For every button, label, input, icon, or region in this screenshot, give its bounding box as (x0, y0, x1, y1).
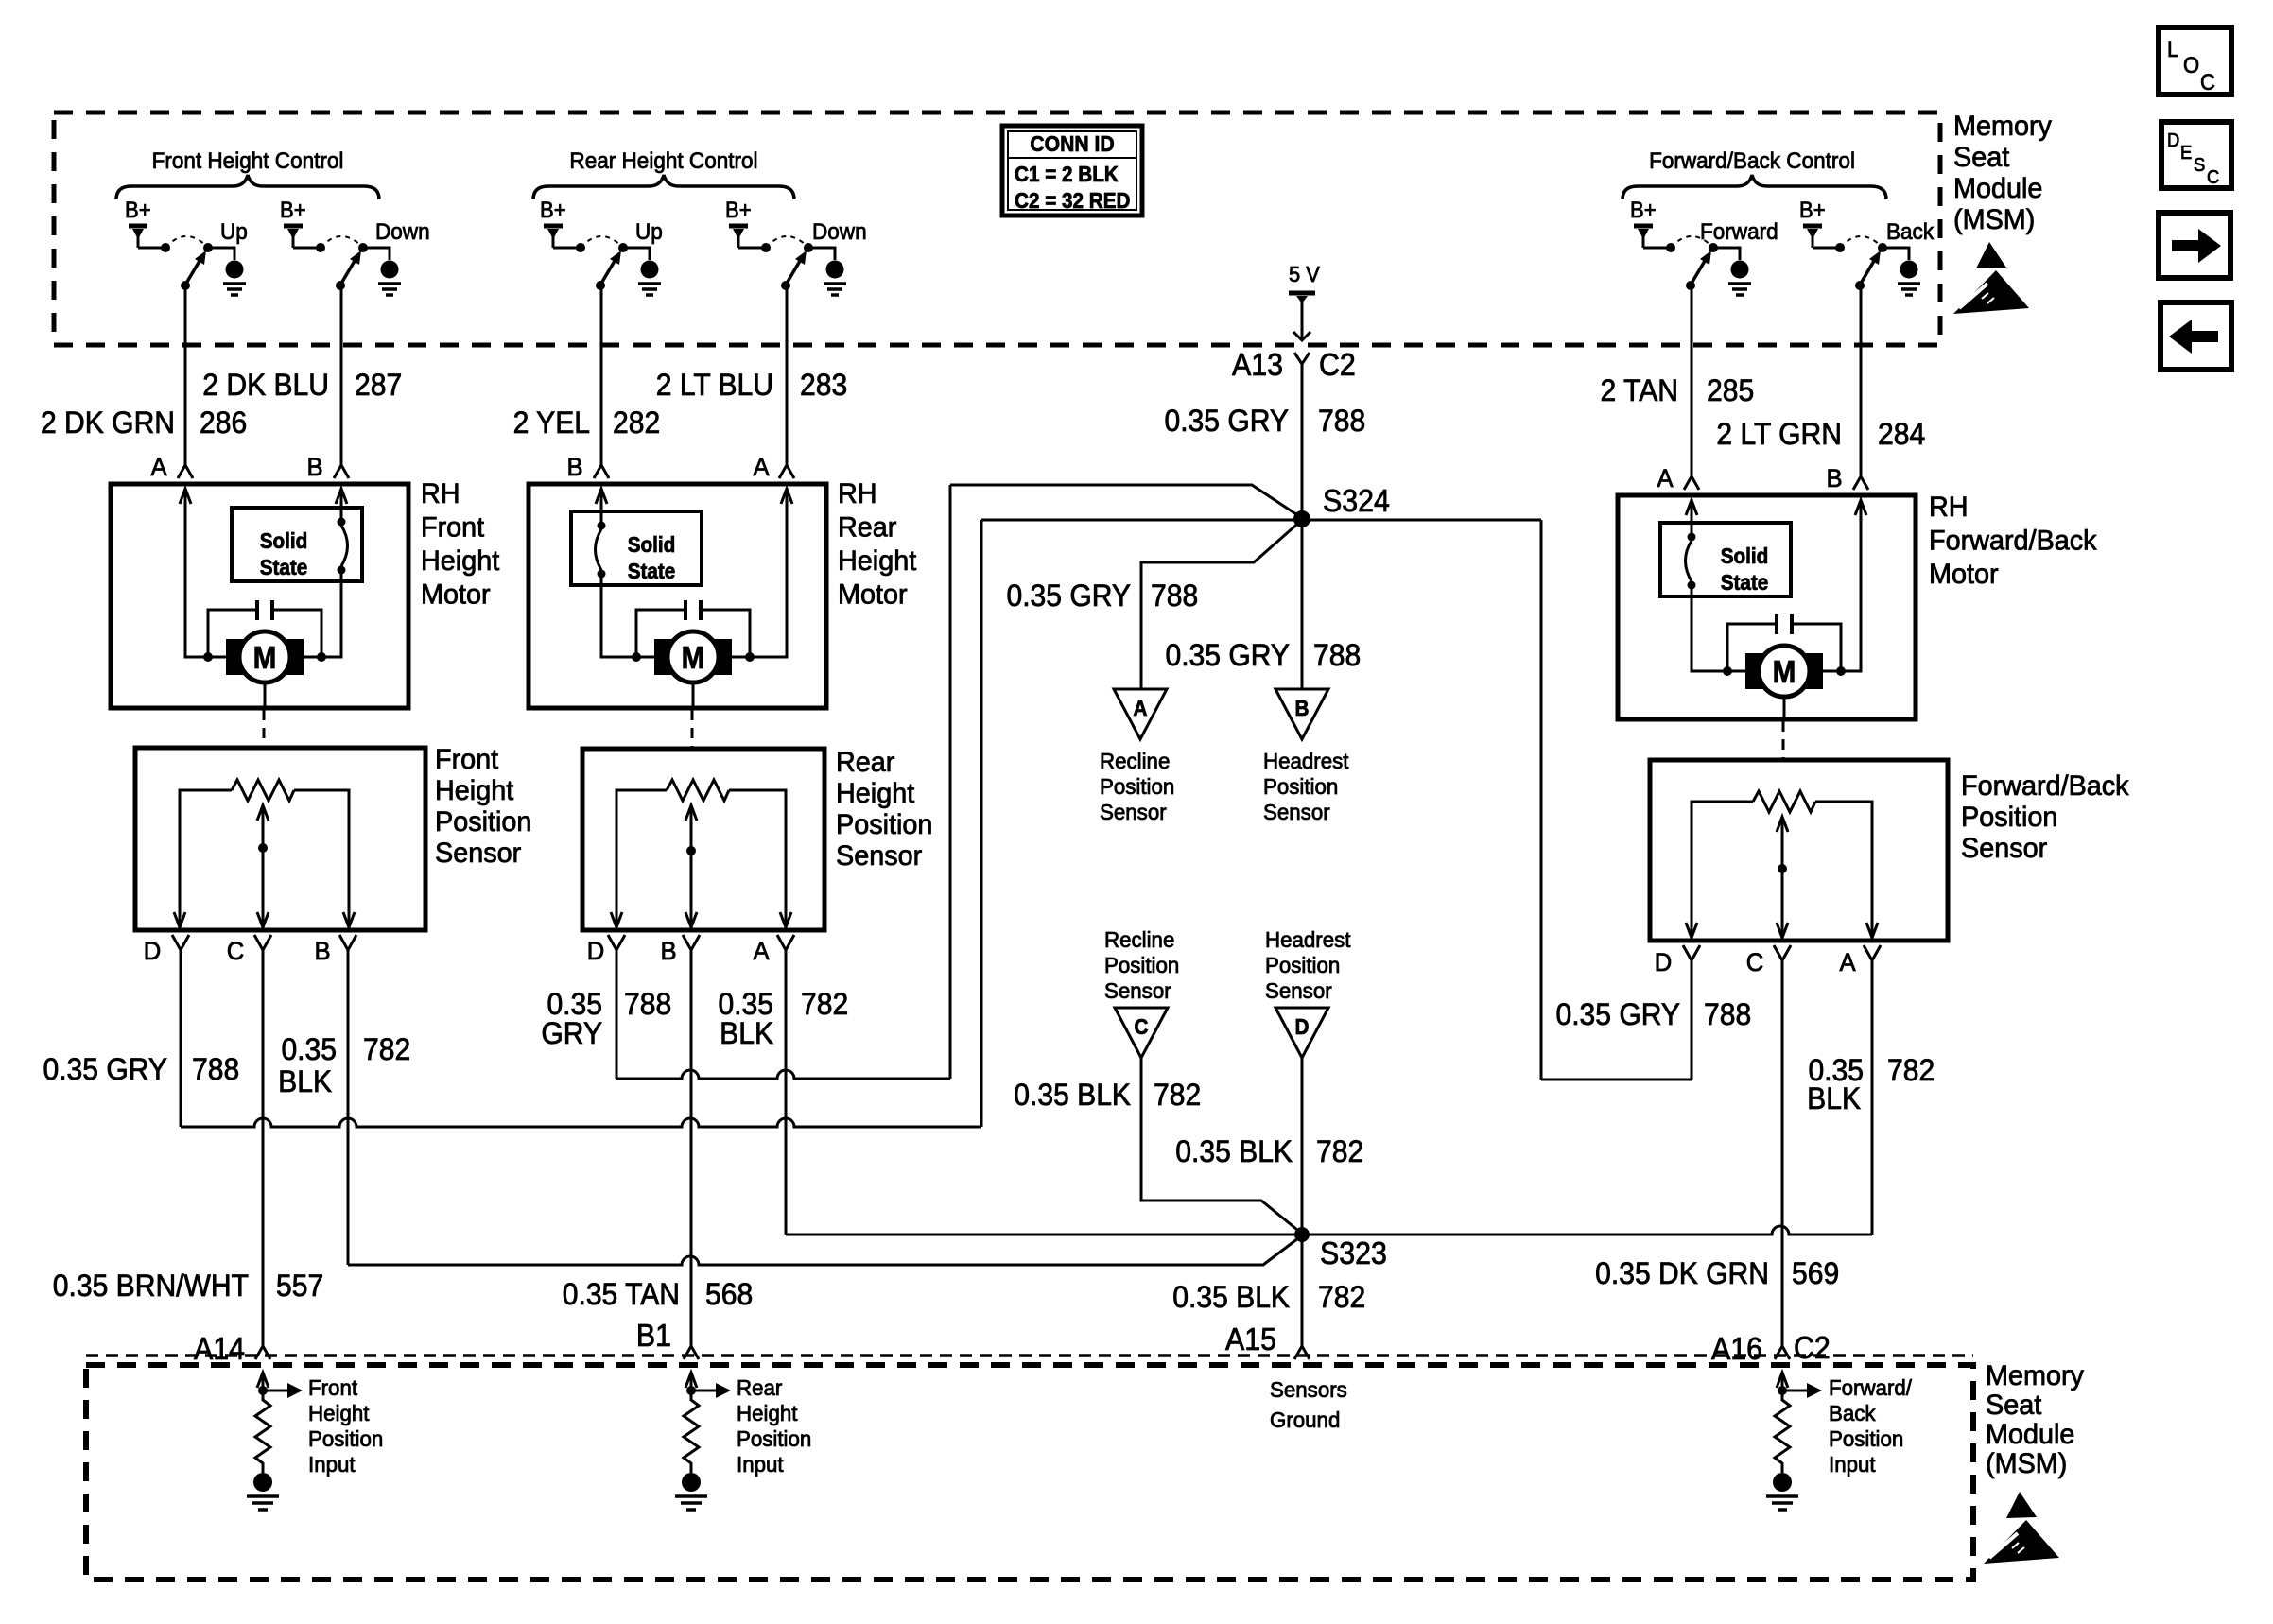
svg-text:B+: B+ (1630, 197, 1657, 222)
switch Rear Height Down (738, 236, 846, 295)
svg-text:C: C (2200, 69, 2215, 95)
svg-text:2 TAN: 2 TAN (1601, 373, 1678, 407)
svg-text:B1: B1 (636, 1318, 671, 1353)
wire S323 to A15 (1301, 1235, 1304, 1346)
svg-text:Solid: Solid (260, 528, 308, 553)
connector chevron (B1) (684, 1346, 699, 1359)
svg-text:Solid: Solid (1721, 544, 1769, 568)
svg-text:B: B (314, 936, 330, 965)
svg-text:Headrest: Headrest (1263, 749, 1349, 773)
forward arrow icon (2159, 213, 2230, 278)
wire label 2 YEL 282 (513, 406, 661, 440)
svg-text:Height: Height (838, 544, 916, 577)
wire label 0.35 BLK 782 (front B) (278, 1032, 410, 1098)
Forward/Back Position Sensor box (1650, 760, 1948, 941)
svg-text:782: 782 (801, 987, 848, 1021)
connector chevron (f/b sensor D) (1683, 945, 1700, 960)
f/b motor pin A arrow (1686, 500, 1697, 515)
connector chevron (Front Height Up switch to motor A) (178, 465, 193, 478)
svg-text:A: A (1657, 463, 1674, 492)
svg-text:0.35 BLK: 0.35 BLK (1175, 1134, 1293, 1168)
wire horizontal y1192 (front D to S324 riser) (181, 1118, 981, 1127)
svg-text:B+: B+ (1799, 197, 1826, 222)
svg-text:A14: A14 (194, 1331, 245, 1366)
svg-text:RH: RH (838, 477, 877, 510)
potentiometer (rear height sensor) (667, 780, 729, 801)
recline position sensor label (upper) (1100, 749, 1174, 824)
svg-text:(MSM): (MSM) (1953, 203, 2035, 235)
svg-text:Input: Input (1829, 1452, 1876, 1477)
potentiometer (forward/back sensor) (1753, 791, 1815, 812)
svg-text:Ground: Ground (1270, 1408, 1340, 1432)
wire label 2 DK BLU 287 (202, 368, 402, 402)
svg-text:782: 782 (1154, 1078, 1201, 1112)
svg-text:Front Height Control: Front Height Control (152, 147, 344, 173)
svg-text:Front: Front (421, 511, 484, 544)
svg-text:Motor: Motor (838, 579, 908, 611)
svg-text:Front: Front (435, 743, 498, 775)
svg-text:A13: A13 (1232, 347, 1283, 382)
Forward/Back Position Sensor label (1961, 769, 2129, 864)
svg-text:Height: Height (836, 777, 914, 809)
switch Back (1813, 236, 1920, 295)
recline position sensor terminal C (1115, 1008, 1168, 1058)
svg-text:0.35 BRN/WHT: 0.35 BRN/WHT (53, 1269, 249, 1303)
svg-text:Recline: Recline (1100, 749, 1170, 773)
svg-text:C: C (1135, 1014, 1149, 1039)
svg-text:B+: B+ (540, 197, 566, 222)
node front motor left (203, 652, 213, 662)
ground (switch Forward) (0, 0, 1, 1)
ground (switch Front Height Up) (0, 0, 1, 1)
svg-text:Forward/Back: Forward/Back (1961, 769, 2129, 802)
B+ power terminal (Front Height Up) (129, 224, 147, 229)
B+ power terminal (Forward) (1634, 224, 1653, 229)
pot wiper (rear height sensor) (690, 807, 693, 927)
headrest position sensor label (lower) (1265, 927, 1351, 1003)
svg-text:Headrest: Headrest (1265, 927, 1351, 952)
svg-text:D: D (1295, 1014, 1310, 1039)
svg-text:287: 287 (355, 368, 402, 402)
svg-text:B: B (1295, 696, 1310, 720)
svg-text:L: L (2167, 36, 2178, 61)
connector chevron (rear sensor B) (683, 935, 700, 950)
mechanical link front (dashed) (263, 710, 266, 746)
svg-text:282: 282 (613, 406, 660, 440)
pot left lead (forward/back sensor) (1692, 802, 1753, 938)
wire label 0.35 BLK 782 (recline C) (1014, 1078, 1201, 1112)
svg-text:Forward/Back Control: Forward/Back Control (1649, 147, 1855, 173)
svg-text:Memory: Memory (1986, 1359, 2084, 1391)
pot wiper arrow (rear height sensor) (685, 805, 697, 821)
connector chevron (Front Height Down switch to motor B) (334, 465, 349, 478)
rear motor pin B arrow (596, 489, 607, 504)
DESC icon (2161, 122, 2231, 188)
f/b motor pin B arrow (1855, 500, 1866, 515)
Memory Seat Module (MSM) top dashed box (54, 112, 1940, 345)
svg-text:C2: C2 (1319, 347, 1356, 382)
svg-text:2 YEL: 2 YEL (513, 406, 590, 440)
svg-text:Position: Position (1104, 953, 1179, 977)
svg-text:Motor: Motor (1929, 558, 1999, 590)
wire horizontal y1141 (rear D to S324 riser) (616, 1070, 950, 1079)
svg-text:Rear: Rear (836, 746, 895, 778)
svg-text:(MSM): (MSM) (1986, 1447, 2067, 1479)
svg-text:Rear: Rear (737, 1375, 783, 1400)
svg-text:D: D (587, 936, 605, 965)
svg-text:Solid: Solid (628, 532, 676, 557)
svg-text:A: A (1134, 696, 1148, 720)
Rear Height Position Sensor label (836, 746, 932, 872)
svg-text:S323: S323 (1320, 1235, 1387, 1270)
svg-text:Back: Back (1886, 218, 1934, 244)
capacitor (front height motor) (208, 600, 321, 657)
mechanical link rear (dashed) (691, 710, 694, 747)
svg-text:788: 788 (624, 987, 671, 1021)
svg-text:Forward: Forward (1700, 218, 1778, 244)
motor M symbol (forward/back motor) (1745, 646, 1823, 697)
svg-text:782: 782 (363, 1032, 410, 1066)
svg-text:Sensor: Sensor (1265, 978, 1332, 1003)
wire Rear Height Up switch to motor B (600, 285, 603, 465)
wire vertical x1630 (1540, 520, 1543, 1080)
svg-text:C2: C2 (1794, 1330, 1831, 1365)
svg-text:0.35 TAN: 0.35 TAN (563, 1277, 680, 1311)
connector chevron (rear sensor D) (608, 935, 625, 950)
svg-text:M: M (682, 641, 705, 676)
svg-text:2 DK BLU: 2 DK BLU (202, 368, 329, 402)
svg-text:Height: Height (308, 1401, 370, 1425)
wire front motor A lead (185, 491, 227, 657)
wire vertical x1038 (980, 520, 983, 1127)
pot wiper arrow bottom (front height sensor) (257, 912, 269, 927)
svg-text:5 V: 5 V (1289, 262, 1320, 286)
wire f/b motor A lower lead (1692, 589, 1746, 671)
wire label 2 LT BLU 283 (656, 368, 847, 402)
wire label 0.35 GRY 788 (recline A) (1006, 579, 1198, 613)
pot left arrow (front height sensor) (174, 912, 185, 927)
wire f/b motor stub (1783, 697, 1786, 719)
svg-text:782: 782 (1316, 1134, 1363, 1168)
pot left lead (front height sensor) (180, 790, 232, 927)
pot right arrow (forward/back sensor) (1866, 923, 1878, 938)
svg-text:Position: Position (1829, 1426, 1903, 1451)
connector chevron (front sensor D) (172, 935, 189, 950)
wire S324 to recline A (1141, 520, 1302, 689)
wire label 0.35 BLK 782 (A15) (1172, 1280, 1365, 1314)
front motor pin B arrow (336, 489, 347, 504)
Front Height Position input label (308, 1375, 383, 1477)
svg-text:BLK: BLK (1807, 1081, 1861, 1115)
RH Front Height Motor box (111, 484, 408, 708)
svg-text:0.35 GRY: 0.35 GRY (43, 1052, 167, 1086)
CONN ID table (1002, 126, 1142, 216)
Front Height Control brace (116, 175, 379, 199)
B+ power terminal (Rear Height Up) (544, 224, 563, 229)
wire label 0.35 DK GRN 569 (1595, 1256, 1839, 1290)
svg-text:2 DK GRN: 2 DK GRN (41, 406, 175, 440)
svg-text:Position: Position (1265, 953, 1340, 977)
svg-text:CONN ID: CONN ID (1030, 131, 1114, 156)
svg-text:D: D (144, 936, 162, 965)
connector chevron (front sensor B) (339, 935, 356, 950)
pot right arrow (rear height sensor) (780, 912, 791, 927)
wire label 0.35 BLK 782 (headrest D) (1175, 1134, 1363, 1168)
svg-text:0.35 BLK: 0.35 BLK (1014, 1078, 1131, 1112)
pot right lead (front height sensor) (294, 790, 349, 927)
svg-text:Recline: Recline (1104, 927, 1174, 952)
svg-text:Up: Up (635, 218, 663, 244)
solid state switch (forward/back motor) (1660, 523, 1791, 596)
svg-text:O: O (2183, 52, 2199, 78)
svg-text:Front: Front (308, 1375, 358, 1400)
Front Height Position Sensor box (135, 748, 425, 930)
RH Forward/Back Motor box (1618, 495, 1916, 719)
B+ power terminal (Front Height Down) (284, 224, 303, 229)
svg-text:Height: Height (737, 1401, 798, 1425)
recline position sensor terminal A (1114, 689, 1167, 739)
pot left arrow (rear height sensor) (611, 912, 622, 927)
wire label 0.35 GRY 788 (rear D) (541, 987, 671, 1050)
pot left lead (rear height sensor) (616, 790, 667, 927)
connector chevron (A14) (255, 1346, 270, 1359)
wire front motor B lower lead (303, 572, 341, 657)
wire f/b motor A upper lead (1691, 502, 1693, 537)
wire label 0.35 BLK 782 (rear A) (718, 987, 848, 1050)
svg-text:M: M (1773, 655, 1796, 690)
ground (switch Front Height Down) (0, 0, 1, 1)
svg-text:C2 = 32 RED: C2 = 32 RED (1015, 188, 1131, 213)
svg-text:Rear: Rear (838, 511, 897, 544)
solid state switch (front height motor) (232, 508, 362, 581)
svg-text:Height: Height (435, 774, 513, 806)
Forward/Back Position input label (1829, 1375, 1913, 1477)
svg-text:B: B (566, 452, 582, 481)
svg-text:788: 788 (192, 1052, 239, 1086)
svg-text:0.35 BLK: 0.35 BLK (1172, 1280, 1290, 1314)
wire front B to S323 (348, 1235, 1302, 1265)
svg-text:Sensor: Sensor (1263, 800, 1330, 824)
svg-text:788: 788 (1151, 579, 1198, 613)
wire Front Height Down switch to motor B (340, 285, 343, 465)
ground (switch Rear Height Up) (0, 0, 1, 1)
wire front sensor D drop (180, 949, 182, 1127)
wire front sensor C drop (A14) (262, 949, 265, 1346)
svg-text:782: 782 (1318, 1280, 1365, 1314)
svg-text:0.35 GRY: 0.35 GRY (1555, 997, 1680, 1031)
svg-text:Sensor: Sensor (1961, 832, 2047, 864)
svg-text:C: C (1746, 947, 1764, 976)
svg-text:Position: Position (435, 805, 531, 838)
Front Height Position Sensor label (435, 743, 531, 869)
svg-text:Position: Position (1263, 774, 1338, 799)
node pot wiper (forward/back sensor) (1778, 864, 1787, 873)
svg-text:A16: A16 (1711, 1331, 1762, 1366)
wire f/b sensor A drop (1871, 959, 1874, 1235)
headrest position sensor label (upper) (1263, 749, 1349, 824)
B+ power terminal (Rear Height Down) (729, 224, 748, 229)
svg-text:0.35 DK GRN: 0.35 DK GRN (1595, 1256, 1769, 1290)
svg-text:State: State (1721, 570, 1769, 595)
node f/b motor left (1723, 666, 1732, 676)
svg-text:Up: Up (220, 218, 248, 244)
wire rear motor B upper lead (600, 491, 603, 524)
node rear motor right (745, 652, 755, 662)
svg-text:Memory: Memory (1953, 110, 2052, 142)
svg-text:B+: B+ (125, 197, 151, 222)
wire rear motor A lead (731, 491, 787, 657)
mechanical link f/b (dashed) (1782, 721, 1785, 758)
Memory Seat Module (MSM) bottom dashed box (86, 1365, 1973, 1580)
wire f/b sensor D drop (1691, 959, 1693, 1080)
svg-text:GRY: GRY (541, 1016, 602, 1050)
connector chevron (A15) (1294, 1346, 1310, 1359)
wire S324 to headrest B (1301, 519, 1304, 689)
node rear motor left (632, 652, 641, 662)
svg-text:Forward/: Forward/ (1829, 1375, 1913, 1400)
wire label 0.35 GRY 788 (f/b D) (1555, 997, 1751, 1031)
pot right lead (rear height sensor) (729, 790, 786, 927)
svg-text:A15: A15 (1225, 1322, 1276, 1356)
wire Front Height Up switch to motor A (184, 285, 187, 465)
svg-text:M: M (253, 641, 277, 676)
svg-text:788: 788 (1318, 404, 1365, 438)
svg-text:A: A (150, 452, 167, 481)
svg-text:0.35 GRY: 0.35 GRY (1006, 579, 1131, 613)
svg-text:Module: Module (1953, 172, 2042, 204)
pot wiper arrow (front height sensor) (257, 805, 269, 821)
svg-text:Rear Height Control: Rear Height Control (569, 147, 757, 173)
Memory Seat Module label (top right) (1953, 110, 2052, 235)
svg-text:E: E (2180, 143, 2192, 164)
wire S323 horizontal (786, 1226, 1872, 1235)
switch Front Height Down (293, 236, 401, 295)
svg-text:BLK: BLK (278, 1064, 332, 1098)
pot wiper arrow bottom (rear height sensor) (685, 912, 697, 927)
wire f/b sensor C drop (A16) (1781, 959, 1784, 1346)
rear motor pin A arrow (781, 489, 792, 504)
wire recline C to S323 (1141, 1058, 1302, 1234)
svg-text:B: B (1826, 463, 1842, 492)
svg-text:Position: Position (308, 1426, 383, 1451)
connector chevron (Rear Height Up switch to motor B) (594, 465, 609, 478)
svg-text:C: C (2207, 167, 2219, 188)
front motor pin A arrow (180, 489, 191, 504)
ESD symbol (top) (1953, 242, 2029, 314)
pot right lead (forward/back sensor) (1815, 802, 1872, 938)
svg-text:BLK: BLK (720, 1016, 773, 1050)
svg-text:2 LT GRN: 2 LT GRN (1716, 417, 1842, 451)
svg-text:0.35 GRY: 0.35 GRY (1164, 404, 1289, 438)
svg-text:Input: Input (737, 1452, 784, 1477)
wire S324 upper-left branch (950, 485, 1302, 518)
svg-text:Position: Position (1961, 801, 2057, 833)
solid state switch (rear height motor) (571, 511, 702, 585)
svg-text:0.35 GRY: 0.35 GRY (1165, 638, 1290, 672)
svg-text:Position: Position (1100, 774, 1174, 799)
wire label 0.35 BRN/WHT 557 (53, 1269, 323, 1303)
headrest position sensor terminal B (1275, 689, 1328, 739)
svg-text:D: D (2167, 130, 2179, 151)
svg-text:569: 569 (1792, 1256, 1839, 1290)
Front Height Position input circuit (arrow, resistor, ground) (247, 1373, 303, 1510)
wire label 0.35 GRY 788 (A13) (1164, 404, 1365, 438)
wire label 0.35 GRY 788 (headrest B) (1165, 638, 1361, 672)
wire label 0.35 BLK 782 (f/b A) (1807, 1053, 1935, 1115)
LOC icon (2159, 27, 2231, 95)
B+ power terminal (Back) (1803, 224, 1822, 229)
wire horizontal y1142 (S324 riser to f/b D) (1541, 1079, 1692, 1081)
Rear Height Control brace (533, 175, 794, 199)
wire rear sensor A drop (785, 949, 788, 1235)
svg-text:A: A (1839, 947, 1856, 976)
svg-text:Forward/Back: Forward/Back (1929, 525, 2097, 557)
svg-text:0.35: 0.35 (281, 1032, 337, 1066)
pot wiper (front height sensor) (262, 807, 265, 927)
5 V terminal (1289, 293, 1315, 340)
node front motor right (317, 652, 326, 662)
svg-text:C1 = 2 BLK: C1 = 2 BLK (1015, 162, 1119, 186)
svg-text:283: 283 (800, 368, 847, 402)
svg-text:State: State (260, 555, 308, 579)
wire front sensor B drop (347, 949, 350, 1265)
connector chevron A13 (1294, 353, 1310, 364)
svg-text:Sensor: Sensor (1104, 978, 1171, 1003)
connector chevron (rear sensor A) (777, 935, 794, 950)
wire vertical x1005 (949, 485, 952, 1079)
svg-text:Down: Down (812, 218, 867, 244)
svg-text:557: 557 (276, 1269, 323, 1303)
pot wiper (forward/back sensor) (1781, 819, 1784, 938)
svg-text:B+: B+ (725, 197, 752, 222)
svg-text:286: 286 (200, 406, 247, 440)
svg-text:788: 788 (1704, 997, 1751, 1031)
wire headrest D to S323 (1301, 1058, 1304, 1235)
wire S324 horizontal (981, 519, 1541, 522)
connector chevron (f/b sensor C) (1774, 945, 1791, 960)
wire front motor stub (264, 682, 267, 708)
svg-text:Seat: Seat (1953, 141, 2009, 173)
motor M symbol (rear height motor) (654, 631, 732, 682)
wire front motor B upper lead (340, 491, 343, 520)
connector chevron (Rear Height Down switch to motor A) (779, 465, 794, 478)
capacitor (forward/back motor) (1727, 614, 1841, 671)
svg-text:Input: Input (308, 1452, 356, 1477)
wire label 2 DK GRN 286 (41, 406, 247, 440)
capacitor (rear height motor) (636, 600, 750, 657)
connector chevron (Back switch to motor B) (1853, 476, 1868, 490)
wire rear sensor D drop (616, 949, 618, 1079)
pot right arrow (front height sensor) (343, 912, 355, 927)
motor M symbol (front height motor) (226, 631, 304, 682)
switch Front Height Up (138, 236, 246, 295)
Rear Height Position input label (737, 1375, 811, 1477)
ESD symbol (bottom) (1984, 1492, 2059, 1564)
RH Rear Height Motor label (838, 477, 916, 610)
Rear Height Position input circuit (arrow, resistor, ground) (675, 1373, 731, 1510)
pot left arrow (forward/back sensor) (1686, 923, 1697, 938)
svg-text:2 LT BLU: 2 LT BLU (656, 368, 773, 402)
svg-text:285: 285 (1707, 373, 1754, 407)
svg-text:S: S (2194, 155, 2205, 176)
svg-text:Motor: Motor (421, 579, 491, 611)
svg-text:D: D (1655, 947, 1673, 976)
Rear Height Position Sensor box (582, 749, 824, 930)
connector chevron (Forward switch to motor A) (1684, 476, 1699, 490)
connector chevron (front sensor C) (254, 935, 271, 950)
wire label 0.35 GRY 788 (front D) (43, 1052, 239, 1086)
wire rear motor B lower lead (601, 576, 655, 657)
